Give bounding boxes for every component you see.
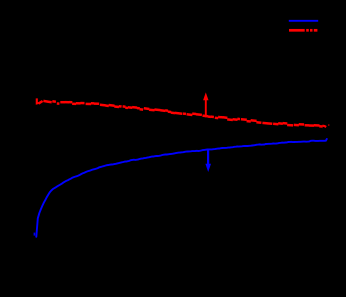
legend red dashed line: [289, 29, 317, 32]
red curve start dip: [37, 98, 39, 103]
blue down arrow head: [205, 164, 211, 172]
red curve trailing dot: [328, 124, 329, 125]
blue curve start blob: [34, 233, 36, 236]
blue curve: [36, 139, 327, 237]
red curve noisy dashed body: [39, 101, 323, 127]
red up arrow stem: [205, 100, 207, 118]
red curve end tick: [323, 126, 327, 127]
red up arrow head: [203, 92, 208, 100]
legend blue solid line: [289, 20, 318, 22]
blue down arrow stem: [207, 149, 209, 164]
